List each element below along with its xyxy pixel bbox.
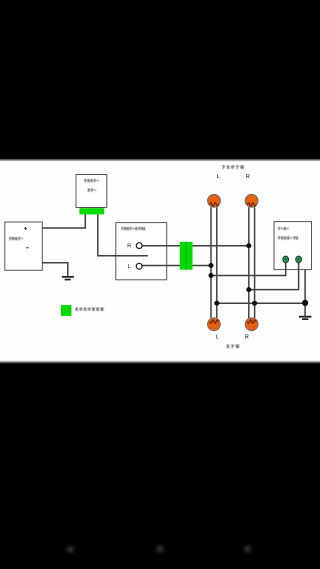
- label フロント側 (front side): [222, 166, 244, 169]
- svg-text:R: R: [245, 334, 249, 340]
- label ウインカーリレー (relay) line2: [88, 189, 96, 192]
- nav button 3: [245, 546, 251, 552]
- wire ground bus: [217, 302, 305, 304]
- label インジケータ (indicator): [278, 237, 298, 240]
- junction dot R-switch/R-line: [246, 243, 251, 248]
- svg-text:R: R: [127, 244, 131, 250]
- wire L lamps ground leg: [216, 207, 218, 318]
- junction dot L ground leg/bus: [214, 301, 219, 306]
- lamp rear L: [208, 318, 221, 331]
- label ウインカースイッチ (switch): [121, 227, 145, 230]
- nav button 1: [68, 547, 74, 553]
- junction dot L-line/L-indicator: [209, 273, 214, 278]
- wire meter ground drop: [304, 270, 306, 316]
- wire relay output to switch common: [98, 214, 148, 255]
- ground symbol left: [62, 276, 74, 280]
- label メーター (meter): [278, 227, 289, 230]
- label battery minus: [26, 246, 29, 249]
- junction dot L-switch/L-line: [209, 263, 214, 268]
- switch box: [116, 223, 167, 280]
- svg-text:L: L: [216, 335, 219, 341]
- wire battery plus to relay: [42, 214, 85, 228]
- wire R lamps ground leg: [254, 207, 256, 318]
- wire R lamps signal leg: [248, 207, 250, 318]
- white diagram sheet: [0, 160, 320, 362]
- junction dot R ground leg/bus: [252, 301, 257, 306]
- junction dot meter ground/bus: [302, 300, 308, 306]
- svg-text:L: L: [217, 174, 220, 180]
- junction dot R-line/R-indicator: [246, 287, 251, 292]
- lamp front R: [245, 194, 258, 207]
- label バッテリー (battery): [9, 237, 23, 240]
- switch contact R: [136, 243, 142, 249]
- svg-text:L: L: [128, 264, 131, 270]
- legend connector swatch (green): [61, 305, 71, 316]
- ground symbol right: [299, 316, 312, 320]
- wire battery minus to ground: [42, 263, 68, 276]
- battery B1 box: [5, 222, 43, 270]
- relay box: [76, 175, 107, 208]
- label こういう接続部 (legend text): [75, 308, 103, 311]
- lamp front L: [208, 194, 221, 207]
- label battery plus: [24, 227, 27, 230]
- svg-text:R: R: [246, 174, 250, 180]
- relay connector (green): [79, 208, 104, 214]
- wire switch R to right lamp line: [142, 245, 249, 247]
- switch contact L: [136, 263, 142, 269]
- meter indicator box: [274, 222, 312, 270]
- label リア側 (rear side): [227, 345, 240, 348]
- label ウインカーリレー (relay) line1: [84, 180, 99, 183]
- nav button 2: [157, 546, 163, 552]
- wire L lamps signal leg: [210, 207, 212, 318]
- indicator lamp L (green): [283, 256, 289, 263]
- indicator lamp R (green): [296, 256, 302, 263]
- lamp rear R: [245, 318, 258, 331]
- switch-harness connector (green): [180, 242, 193, 270]
- wire right lamp line to R indicator: [249, 263, 299, 290]
- wire left lamp line to L indicator: [211, 263, 286, 276]
- wire switch L to left lamp line: [142, 265, 211, 267]
